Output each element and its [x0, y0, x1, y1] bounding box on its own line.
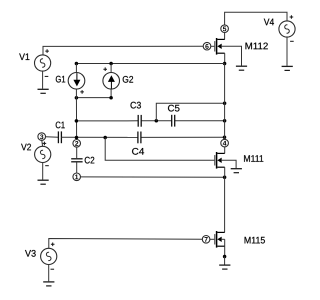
label V2	[21, 144, 31, 151]
wire G-loop bottom	[76, 97, 111, 99]
junction C3 row left	[75, 119, 79, 123]
wire node3 to V2 stem	[41, 141, 44, 147]
wire top supply node5 to V4	[225, 12, 287, 24]
transistor M112	[215, 38, 242, 66]
junction bypass right	[223, 102, 227, 106]
voltage source V4	[279, 15, 295, 41]
node 2	[73, 140, 81, 148]
junction M112 source	[223, 62, 227, 66]
junction above node 2	[75, 136, 79, 140]
label C2	[85, 157, 95, 164]
junction G1 bottom	[75, 96, 79, 100]
label M112	[246, 43, 268, 50]
label C3	[131, 102, 141, 109]
junction C3-C5 node	[155, 119, 159, 123]
label M115	[245, 237, 265, 244]
wire M115 source/bulk down	[224, 239, 226, 256]
wire node2 to C2	[76, 147, 78, 158]
node 6	[203, 42, 211, 50]
junction C5 right	[223, 119, 227, 123]
node 1	[73, 173, 81, 181]
node 4	[221, 139, 229, 147]
wire M112 source down	[224, 53, 226, 63]
ground M112 bulk	[236, 66, 247, 70]
wire V4 bottom	[286, 37, 288, 66]
transistor M111	[215, 152, 236, 169]
wire node1 to M111 source	[81, 176, 225, 178]
wire G-loop top	[76, 63, 224, 65]
capacitor C5	[172, 115, 175, 127]
junction G2 top	[109, 62, 113, 66]
label V3	[25, 250, 36, 257]
wire main vertical M112 source to node 4	[224, 64, 226, 140]
label M111	[244, 155, 263, 162]
wire G2 top stem	[110, 64, 112, 73]
wire G1 top stem	[75, 64, 77, 73]
wire V1 bottom	[42, 71, 44, 89]
wire V2 bottom	[42, 163, 44, 180]
voltage source V1	[35, 49, 51, 76]
wire M111 gate line	[105, 138, 214, 161]
junction gate-line tee	[103, 136, 107, 140]
label V4	[264, 19, 274, 26]
current source G2 (arrow up)	[103, 67, 120, 89]
wire C3/C5 row	[76, 120, 224, 122]
wire node7 to M115 gate	[210, 238, 214, 240]
junction G1 top	[75, 62, 79, 66]
wire G2 bottom stem	[110, 89, 112, 97]
wire node5 to M112 drain	[224, 33, 226, 40]
wire V3 bottom	[48, 265, 50, 282]
wire node4 to M111 drain	[224, 147, 226, 153]
current source G1 (arrow down)	[68, 73, 85, 94]
wire bypass	[156, 103, 224, 120]
wire node3 to C1	[46, 136, 59, 138]
wire V1 top to node 6	[43, 46, 203, 55]
junction C4 right	[223, 136, 227, 140]
wire M115 to ground	[224, 257, 226, 265]
voltage source V2	[35, 142, 51, 166]
transistor M115	[215, 231, 225, 248]
capacitor C4	[138, 132, 141, 144]
voltage source V3	[41, 243, 57, 270]
node 5	[221, 25, 229, 33]
capacitor C2	[71, 159, 82, 162]
node 3	[38, 133, 46, 141]
wire C1/C4 row	[62, 136, 225, 138]
label V1	[19, 53, 29, 60]
wire M111 source down	[224, 167, 226, 177]
junction M115 source	[223, 255, 227, 259]
capacitor C1	[58, 131, 61, 143]
wire node6 to M112 gate	[211, 45, 214, 47]
label G2	[123, 76, 133, 83]
wire G1 vertical to node 2	[75, 89, 77, 139]
junction M111 source	[223, 176, 227, 180]
wire to M115 drain	[224, 177, 226, 232]
ground M111 bulk	[231, 169, 242, 173]
ground V1	[38, 89, 49, 93]
ground V3	[43, 282, 54, 286]
capacitor C3	[138, 115, 141, 127]
label C1	[56, 122, 65, 129]
label C5	[168, 105, 180, 112]
ground M115	[219, 265, 230, 269]
wire C2 to node 1	[76, 163, 78, 173]
junction G2 bottom	[109, 96, 113, 100]
node 7	[202, 236, 210, 244]
ground V4	[282, 66, 293, 70]
wire V3 to node 7	[49, 239, 203, 249]
ground V2	[38, 180, 49, 184]
label C4	[132, 148, 144, 155]
label G1	[56, 76, 65, 83]
